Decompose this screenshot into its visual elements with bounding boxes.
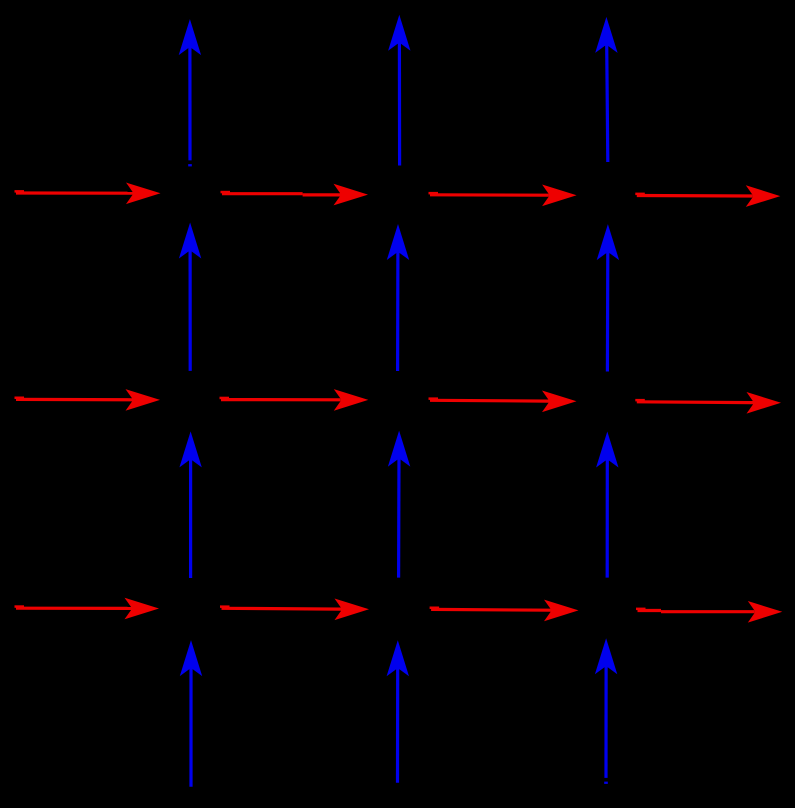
blue arrow col1 seg1: wire	[180, 640, 202, 787]
red arrow row3 seg1: wire	[15, 598, 160, 620]
blue arrow col1 seg4: wire	[179, 19, 201, 166]
blue arrow col2 seg3: wire	[387, 224, 409, 371]
red arrow row1 seg2: wire	[221, 184, 369, 206]
blue arrow col2 seg4: wire	[388, 15, 410, 166]
red arrow row1 seg1: wire	[15, 183, 161, 205]
blue arrow col2 seg2: wire	[388, 431, 410, 578]
blue arrow col3 seg1: wire	[595, 638, 617, 784]
blue arrow col3 seg2: wire	[596, 432, 618, 578]
red arrow row2 seg4: wire	[635, 392, 781, 414]
red arrow row2 seg2: wire	[220, 389, 369, 411]
red arrow row3 seg4: wire	[636, 601, 782, 623]
red arrow row1 seg3: wire	[429, 185, 577, 207]
blue arrow col1 seg3: wire	[179, 223, 201, 371]
red arrow row3 seg3: wire	[430, 600, 579, 622]
red arrow row3 seg2: wire	[220, 599, 369, 621]
blue arrow col2 seg1: wire	[387, 640, 409, 783]
red arrow row2 seg3: wire	[429, 391, 577, 413]
red arrow row1 seg4: wire	[635, 185, 780, 207]
blue arrow col3 seg4: wire	[595, 17, 617, 162]
red arrow row2 seg1: wire	[15, 389, 161, 411]
blue arrow col1 seg2: wire	[179, 431, 201, 578]
blue arrow col3 seg3: wire	[597, 224, 619, 371]
